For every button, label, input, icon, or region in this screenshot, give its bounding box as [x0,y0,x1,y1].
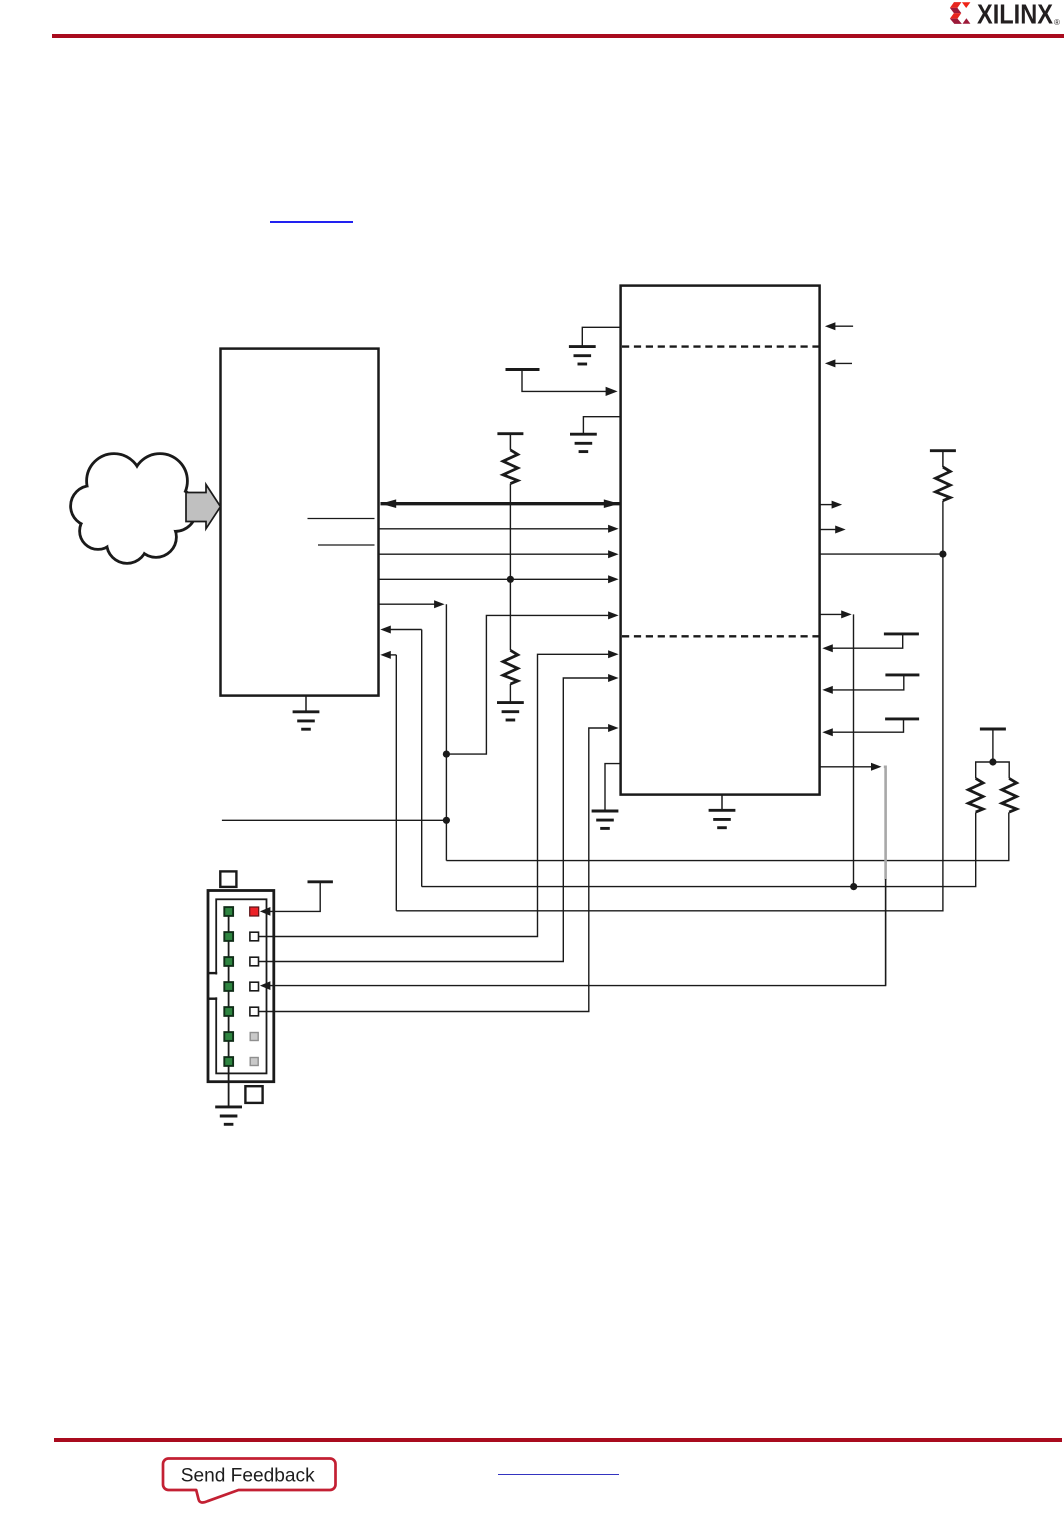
block U2 FPGA [621,286,820,795]
wire U2 pin to ground G1 [582,327,620,346]
stub wire left at 820 [222,819,447,821]
gray arrow cloud to U1 [186,485,221,529]
arrow into U2 right from VCC5 [822,686,833,694]
pin label underline 2 inside U1 [318,544,375,546]
resistor R4 [968,778,983,812]
net A bottom run to R5 [446,812,1008,860]
short arrow into U2 right 2 [825,359,852,367]
wire pin2 TMS [259,650,619,936]
short arrow into U2 right 1 [825,322,853,330]
power tap VREF to pin1 [267,882,333,912]
connector top tab [220,871,236,887]
top red rule [52,34,1064,38]
wire U2 to ground G3 [605,764,621,811]
power tap VCC7 [980,729,1006,762]
wire U2 to net C [820,553,943,555]
connector ground pin rail [228,912,230,1107]
net C bottom run [396,554,943,911]
wire R1 bottom to junction [509,484,511,580]
ground G5 [497,703,524,720]
wire pin5 TDI [259,724,619,1012]
blue hyperlink underline bottom [498,1474,619,1476]
connector J1 inner body [216,899,266,1073]
dashed section divider 2 in U2 [622,635,819,637]
pins 6-7 gray [250,1033,258,1066]
net B bottom run to R4 [422,812,976,886]
short arrow out U2 right 2 [820,526,846,534]
junction dot C [939,551,946,558]
ground G3 [592,811,619,828]
connector key notch [208,973,219,999]
junction dot A2 [443,817,450,824]
ground pins column green [224,907,233,1066]
net A vertical [445,604,447,860]
wire U2 pin to ground G2 [583,417,620,435]
wire pin4 TDO [260,879,886,990]
bus double arrow U1-U2 [381,499,620,508]
gray wire TDO vertical [884,767,886,880]
pins 2-5 white [250,932,259,1016]
wire into U1 f [380,651,396,659]
power tap VCC4 [830,634,919,648]
wire U1 to U2 c [380,575,619,583]
pin 1 VREF red [250,907,259,916]
junction dot A1 [443,751,450,758]
resistor R2 [936,467,951,501]
arrow into pin1 [260,907,271,916]
short arrow out U2 right 1 [820,501,842,509]
wire U1 to U2 a [380,525,619,533]
resistor R3 [503,650,518,684]
net C vertical [395,655,397,911]
resistor R1 [503,450,518,484]
junction dot on wire c [507,576,514,583]
net B vertical [421,630,423,887]
ground G4 [709,810,736,827]
ground below connector [215,1107,242,1124]
arrow into U2 right from VCC4 [822,644,833,652]
ground below U1 [293,696,320,730]
pin label underline 1 inside U1 [308,518,375,520]
wire U1 out d with arrow [380,600,445,608]
power tap VCC3 above R2 [930,451,956,467]
connector bottom tab [245,1086,262,1103]
cloud network symbol [72,455,195,562]
wire U2 TDO out [820,763,882,771]
wire U2 out to net B [820,610,854,886]
power tap VCC2 above R1 [497,434,523,450]
ground G1 [569,347,596,364]
wire pin3 TCK [259,674,619,962]
wire into U1 e [380,626,421,634]
wire U2 bottom to ground G4 [721,795,723,811]
power tap VCC5 [830,675,919,690]
power tap VCC1 [506,370,611,392]
resistor R5 [1002,778,1017,812]
block U1 download cable interface [221,349,379,696]
bottom red rule [54,1438,1062,1442]
power tap VCC6 [830,719,919,732]
arrow into U2 left at 391 [606,387,618,396]
blue hyperlink underline top [270,221,354,223]
xilinx logo [940,0,1064,30]
ground G2 [570,434,597,451]
wire R2 to dot C [942,501,944,554]
arrow into U2 right from VCC6 [822,728,833,736]
wire junction to R3 [509,579,511,650]
wire split to R4 R5 [976,762,1010,778]
dashed section divider 1 in U2 [622,345,819,347]
wire R3 to ground G5 [509,684,511,703]
branch A to U2 [446,611,618,754]
svg-text:Send Feedback: Send Feedback [181,1464,315,1486]
send feedback button [150,1450,350,1512]
connector J1 outer body [208,891,274,1082]
junction dot B [850,883,857,890]
wire U1 to U2 b [380,550,619,558]
wire TDO vertical lower [885,879,887,986]
junction dot VCC7 [989,758,996,765]
